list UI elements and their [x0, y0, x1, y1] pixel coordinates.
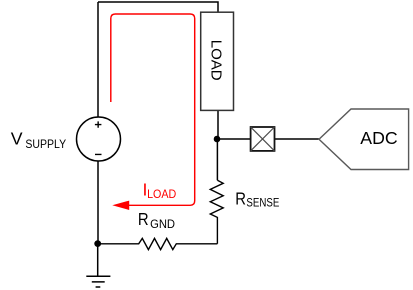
svg-text:SENSE: SENSE [246, 197, 279, 210]
svg-text:SUPPLY: SUPPLY [25, 139, 66, 152]
svg-text:LOAD: LOAD [147, 189, 176, 202]
svg-text:GND: GND [150, 219, 175, 231]
svg-text:R: R [138, 210, 149, 229]
svg-text:ADC: ADC [360, 128, 398, 148]
svg-text:R: R [235, 189, 246, 208]
svg-text:LOAD: LOAD [207, 40, 224, 81]
svg-text:V: V [11, 129, 23, 149]
